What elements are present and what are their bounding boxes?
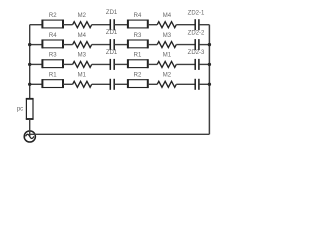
svg-text:M1: M1 <box>163 53 172 59</box>
capacitor (unlabeled, row 4 right) <box>195 79 199 90</box>
wire: row 3 left capacitor to R1 <box>114 63 128 65</box>
resistor M4 (zigzag) <box>73 33 92 48</box>
svg-text:ZD2-3: ZD2-3 <box>188 50 205 56</box>
node: left bus junction, row at y=44.6 <box>28 43 31 46</box>
node: right bus junction, row at y=84.3 <box>208 83 211 86</box>
wire: row 3 to right bus <box>199 63 210 65</box>
capacitor ZD2-1 <box>188 11 205 31</box>
svg-text:R3: R3 <box>134 33 142 39</box>
resistor M2 (zigzag) <box>157 73 176 88</box>
svg-text:ZD2-1: ZD2-1 <box>188 11 205 17</box>
wire: row 4 R1 to M1 <box>63 83 73 85</box>
svg-text:R1: R1 <box>134 53 142 59</box>
wire: row 3 M3 to left capacitor <box>92 63 111 65</box>
svg-text:M3: M3 <box>78 53 87 59</box>
svg-text:M1: M1 <box>78 73 87 79</box>
resistor M1 (zigzag) <box>157 53 176 68</box>
resistor R4 <box>128 13 148 28</box>
svg-text:ZD1: ZD1 <box>106 50 118 56</box>
wire: left vertical bus <box>29 25 31 99</box>
wire: row 2 to right bus <box>199 44 210 46</box>
resistor M3 (zigzag) <box>157 33 176 48</box>
wire: PC resistor down into AC source <box>29 119 31 136</box>
resistor R3 <box>42 53 63 68</box>
svg-text:R2: R2 <box>134 73 142 79</box>
wire: row 1 from left bus to R2 <box>30 24 43 26</box>
resistor M2 (zigzag) <box>73 13 92 28</box>
wire: row 2 R3 to M3 <box>148 44 157 46</box>
wire: row 2 R4 to M4 <box>63 44 73 46</box>
resistor R4 <box>42 33 63 48</box>
wire: row 1 to right bus <box>199 24 210 26</box>
wire: row 1 left capacitor to R4 <box>114 24 128 26</box>
capacitor ZD1 <box>106 50 118 70</box>
node: right bus junction, row at y=44.6 <box>208 43 211 46</box>
resistor R1 <box>128 53 148 68</box>
wire: row 4 left capacitor to R2 <box>114 83 128 85</box>
resistor M1 (zigzag) <box>73 73 92 88</box>
node: left bus junction, row at y=64.4 <box>28 63 31 66</box>
wire: row 4 to right bus <box>199 83 210 85</box>
capacitor ZD2-2 <box>188 30 205 50</box>
capacitor ZD1 <box>106 30 118 50</box>
wire: right vertical bus <box>208 25 210 135</box>
svg-text:M4: M4 <box>78 33 87 39</box>
wire: row 2 from left bus to R4 <box>30 44 43 46</box>
svg-text:R4: R4 <box>49 33 57 39</box>
svg-text:ZD2-2: ZD2-2 <box>188 30 205 36</box>
wire: row 3 R1 to M1 <box>148 63 157 65</box>
resistor R2 <box>128 73 148 88</box>
svg-text:R4: R4 <box>134 13 142 19</box>
wire: row 1 R2 to M2 <box>63 24 73 26</box>
resistor PC (vertical) <box>17 99 34 119</box>
wire: row 3 M1 to right capacitor <box>176 63 195 65</box>
wire: row 1 M2 to left capacitor <box>92 24 111 26</box>
svg-text:M2: M2 <box>163 73 172 79</box>
AC source sine mark <box>26 134 34 138</box>
svg-text:M3: M3 <box>163 33 172 39</box>
resistor R2 <box>42 13 63 28</box>
wire: row 4 M1 to left capacitor <box>92 83 111 85</box>
node: left bus junction, row at y=84.3 <box>28 83 31 86</box>
capacitor ZD1 <box>106 10 118 30</box>
wire: bottom return, AC source to right bus <box>30 133 210 135</box>
capacitor ZD2-3 <box>188 50 205 70</box>
svg-text:pc: pc <box>17 107 23 113</box>
wire: row 1 R4 to M4 <box>148 24 157 26</box>
svg-text:ZD1: ZD1 <box>106 30 118 36</box>
svg-text:M2: M2 <box>78 13 87 19</box>
node: right bus junction, row at y=64.4 <box>208 63 211 66</box>
resistor R3 <box>128 33 148 48</box>
wire: row 1 M4 to right capacitor <box>176 24 195 26</box>
wire: row 2 M4 to left capacitor <box>92 44 111 46</box>
wire: row 4 from left bus to R1 <box>30 83 43 85</box>
svg-text:R2: R2 <box>49 13 57 19</box>
wire: row 3 R3 to M3 <box>63 63 73 65</box>
svg-text:R3: R3 <box>49 53 57 59</box>
svg-text:M4: M4 <box>163 13 172 19</box>
resistor M3 (zigzag) <box>73 53 92 68</box>
resistor M4 (zigzag) <box>157 13 176 28</box>
wire: row 2 left capacitor to R3 <box>114 44 128 46</box>
resistor R1 <box>42 73 63 88</box>
wire: row 3 from left bus to R3 <box>30 63 43 65</box>
wire: row 2 M3 to right capacitor <box>176 44 195 46</box>
AC source G1 (circle, drawn under wires) <box>24 131 35 142</box>
svg-text:ZD1: ZD1 <box>106 10 118 16</box>
svg-text:R1: R1 <box>49 73 57 79</box>
wire: row 4 M2 to right capacitor <box>176 83 195 85</box>
wire: row 4 R2 to M2 <box>148 83 157 85</box>
capacitor (unlabeled, row 4 left) <box>110 79 114 90</box>
